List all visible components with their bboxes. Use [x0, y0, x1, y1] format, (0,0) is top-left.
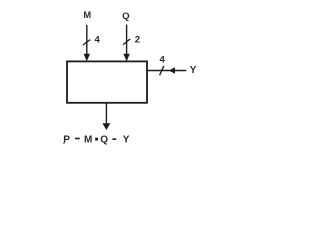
bus slash Y	[160, 66, 164, 76]
equation plus sign	[112, 138, 116, 140]
svg-text:Q: Q	[100, 135, 108, 146]
arrowhead P output	[102, 123, 110, 130]
bus slash M	[83, 40, 90, 45]
wire M input	[86, 25, 88, 60]
svg-text:2: 2	[135, 35, 140, 46]
svg-text:P: P	[63, 135, 70, 146]
equation label P = M&#183;Q + Y	[63, 135, 130, 146]
svg-text:M: M	[84, 135, 92, 146]
svg-text:Y: Y	[123, 135, 130, 146]
svg-text:Y: Y	[190, 65, 197, 76]
arrowhead Y	[169, 67, 175, 73]
arrowhead M	[84, 54, 90, 62]
wire Y input	[148, 70, 187, 72]
svg-text:4: 4	[160, 54, 166, 65]
scan speck under P	[63, 143, 64, 144]
block U1	[67, 61, 147, 102]
svg-text:M: M	[83, 10, 91, 20]
svg-text:4: 4	[95, 35, 101, 46]
bus slash Q	[123, 39, 130, 45]
svg-text:Q: Q	[122, 11, 130, 22]
wire Q input	[126, 25, 128, 61]
wire P output	[105, 103, 107, 125]
equation equals sign	[75, 138, 80, 140]
equation product dot	[95, 138, 98, 141]
arrowhead Q	[123, 54, 129, 62]
